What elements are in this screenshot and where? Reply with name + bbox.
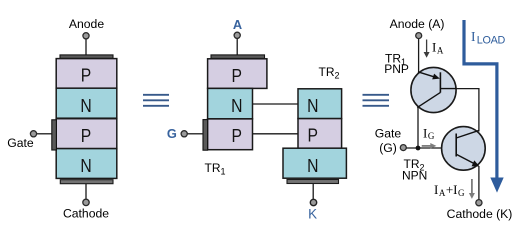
Q2 collector line (456, 130, 479, 138)
svg-text:A: A (233, 17, 242, 32)
svg-text:G: G (167, 126, 177, 141)
svg-text:P: P (232, 65, 242, 87)
op region: transistor Q1 PNP body (411, 67, 456, 112)
layer N (bottom) (56, 149, 117, 179)
TR1 anode electrode bar (211, 55, 265, 59)
TR2 layer P (298, 119, 342, 149)
svg-text:PNP: PNP (384, 62, 409, 76)
wire gate to Q2 base (407, 147, 457, 149)
Q1 base lead (440, 88, 456, 90)
svg-text:P: P (232, 125, 242, 147)
wire Q2 emitter to cathode (478, 166, 480, 200)
svg-text:P: P (308, 124, 318, 146)
svg-text:Anode (A): Anode (A) (390, 17, 445, 31)
cathode terminal (476, 200, 482, 206)
transistor Q2 NPN body (442, 127, 486, 171)
TR1 layer P (emitter, wide) (208, 59, 267, 89)
terminal G (181, 131, 187, 137)
svg-text:Cathode: Cathode (63, 207, 109, 221)
svg-text:N: N (80, 155, 91, 177)
layer P (third, gate layer) (56, 119, 117, 149)
svg-text:N: N (80, 95, 91, 117)
Q1 collector line (417, 92, 440, 107)
wire Q1 base to Q2 collector (456, 89, 479, 132)
cathode electrode bar (60, 180, 113, 184)
gate terminal (400, 145, 406, 151)
svg-text:P: P (81, 125, 91, 147)
current arrow IA+IG (469, 179, 475, 199)
svg-text:LOAD: LOAD (477, 34, 506, 46)
wire cathode (85, 184, 87, 199)
arrowhead ILOAD (490, 178, 503, 193)
cathode terminal (83, 199, 89, 205)
svg-text:N: N (307, 155, 318, 177)
current arrow IG (422, 143, 437, 149)
svg-text:NPN: NPN (402, 169, 427, 183)
wire G (187, 133, 203, 135)
TR1 layer N (208, 88, 253, 118)
wire A to electrode (236, 39, 238, 55)
wire ILOAD path (464, 20, 497, 178)
layer P (top) (56, 59, 117, 89)
gate electrode bar (52, 120, 57, 150)
svg-text:P: P (81, 64, 91, 86)
wire K (312, 184, 314, 199)
anode terminal (416, 33, 422, 39)
equivalence symbol (left) (143, 95, 169, 106)
node junction dot (416, 146, 421, 151)
gate terminal (30, 131, 36, 137)
svg-text:(G): (G) (379, 141, 397, 155)
wire Q1 collector down to gate junction (417, 108, 419, 148)
svg-text:Anode: Anode (69, 17, 104, 31)
equivalence symbol (right) (363, 95, 390, 106)
wire gate (37, 133, 52, 135)
svg-text:I: I (471, 29, 476, 44)
svg-text:Gate: Gate (375, 127, 402, 141)
Q2 emitter with arrow (away = NPN) (456, 154, 474, 163)
svg-text:Gate: Gate (7, 136, 34, 150)
terminal K (310, 199, 316, 205)
wire N-N interconnect (253, 103, 299, 105)
TR1 layer P (base/gate) (208, 119, 253, 150)
anode electrode bar (60, 55, 113, 59)
svg-text:K: K (308, 207, 317, 222)
TR2 layer N (emitter, wide) (283, 148, 346, 178)
layer N (second) (56, 88, 117, 118)
TR2 layer N (top) (298, 89, 342, 119)
wire anode to electrode (85, 39, 87, 55)
svg-text:N: N (307, 95, 318, 117)
TR1 gate electrode bar (203, 120, 208, 151)
anode terminal (83, 33, 89, 39)
TR2 cathode electrode bar (287, 180, 339, 184)
svg-text:N: N (231, 95, 242, 117)
svg-text:Cathode (K): Cathode (K) (447, 207, 513, 221)
wire anode down to TR1 emitter (418, 39, 420, 72)
Q2 base bar (455, 134, 457, 157)
wire P-P interconnect (253, 133, 299, 135)
Q1 emitter with arrow (into base = PNP) (418, 72, 436, 78)
current arrow IA (424, 40, 430, 58)
terminal A (234, 32, 240, 38)
Q1 base bar (439, 72, 441, 92)
